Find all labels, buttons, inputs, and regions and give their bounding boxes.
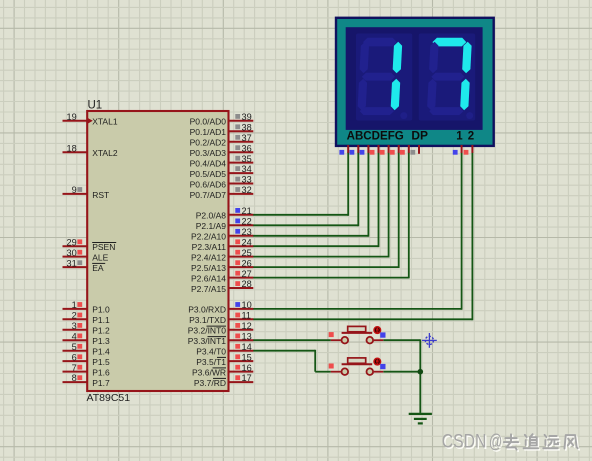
svg-text:P1.4: P1.4: [92, 347, 110, 357]
svg-text:14: 14: [242, 342, 252, 352]
svg-text:P1.2: P1.2: [92, 326, 110, 336]
svg-text:@: @: [489, 432, 502, 453]
svg-text:P2.0/A8: P2.0/A8: [196, 211, 227, 221]
svg-text:30: 30: [66, 248, 76, 258]
svg-text:ABCDEFG: ABCDEFG: [347, 130, 404, 142]
svg-text:XTAL1: XTAL1: [92, 117, 118, 127]
svg-text:27: 27: [242, 269, 252, 279]
svg-text:11: 11: [242, 311, 252, 321]
svg-text:37: 37: [242, 133, 252, 143]
svg-text:7: 7: [72, 363, 77, 373]
svg-text:18: 18: [66, 143, 76, 153]
svg-text:6: 6: [72, 352, 77, 362]
svg-text:4: 4: [72, 331, 77, 341]
svg-text:P3.2/INT0: P3.2/INT0: [188, 326, 227, 336]
svg-text:22: 22: [242, 217, 252, 227]
svg-text:26: 26: [242, 258, 252, 268]
svg-text:P0.1/AD1: P0.1/AD1: [190, 127, 227, 137]
svg-text:P3.1/TXD: P3.1/TXD: [189, 315, 226, 325]
svg-text:P1.7: P1.7: [92, 378, 110, 388]
svg-text:P0.2/AD2: P0.2/AD2: [190, 138, 227, 148]
svg-text:P1.0: P1.0: [92, 305, 110, 315]
svg-text:P2.7/A15: P2.7/A15: [191, 284, 226, 294]
svg-text:P2.5/A13: P2.5/A13: [191, 263, 226, 273]
svg-text:P0.4/AD4: P0.4/AD4: [190, 158, 227, 168]
svg-text:32: 32: [242, 185, 252, 195]
svg-text:36: 36: [242, 143, 252, 153]
svg-text:ALE: ALE: [92, 252, 108, 262]
svg-text:34: 34: [242, 164, 252, 174]
svg-text:9: 9: [72, 185, 77, 195]
svg-text:P1.5: P1.5: [92, 357, 110, 367]
svg-text:RST: RST: [92, 190, 109, 200]
svg-text:P3.0/RXD: P3.0/RXD: [188, 305, 226, 315]
svg-text:1: 1: [456, 130, 463, 142]
svg-text:5: 5: [72, 342, 77, 352]
svg-text:P3.4/T0: P3.4/T0: [196, 347, 226, 357]
svg-text:P0.5/AD5: P0.5/AD5: [190, 169, 227, 179]
svg-text:12: 12: [242, 321, 252, 331]
svg-text:35: 35: [242, 154, 252, 164]
svg-text:P3.5/T1: P3.5/T1: [196, 357, 226, 367]
svg-text:8: 8: [72, 373, 77, 383]
svg-text:13: 13: [242, 331, 252, 341]
svg-text:P1.1: P1.1: [92, 315, 110, 325]
svg-text:AT89C51: AT89C51: [87, 392, 131, 404]
svg-text:25: 25: [242, 248, 252, 258]
svg-text:19: 19: [66, 112, 76, 122]
svg-text:P3.6/WR: P3.6/WR: [192, 367, 226, 377]
svg-text:P2.3/A11: P2.3/A11: [192, 242, 227, 252]
svg-text:U1: U1: [88, 100, 103, 112]
svg-text:P0.6/AD6: P0.6/AD6: [190, 179, 227, 189]
svg-text:XTAL2: XTAL2: [92, 148, 118, 158]
svg-text:29: 29: [66, 237, 76, 247]
svg-text:2: 2: [468, 130, 474, 142]
svg-text:1: 1: [72, 300, 77, 310]
svg-text:P1.6: P1.6: [92, 367, 110, 377]
svg-text:33: 33: [242, 175, 252, 185]
svg-text:P0.0/AD0: P0.0/AD0: [190, 117, 227, 127]
svg-text:16: 16: [242, 363, 252, 373]
svg-text:21: 21: [242, 206, 252, 216]
svg-text:PSEN: PSEN: [92, 242, 115, 252]
svg-text:P2.1/A9: P2.1/A9: [196, 221, 227, 231]
svg-text:2: 2: [72, 311, 77, 321]
svg-text:P1.3: P1.3: [92, 336, 110, 346]
svg-text:24: 24: [242, 237, 252, 247]
svg-text:15: 15: [242, 352, 252, 362]
svg-text:39: 39: [242, 112, 252, 122]
svg-text:31: 31: [66, 258, 76, 268]
svg-text:28: 28: [242, 279, 252, 289]
svg-text:3: 3: [72, 321, 77, 331]
svg-text:CSDN: CSDN: [442, 432, 487, 453]
svg-text:P2.2/A10: P2.2/A10: [191, 232, 226, 242]
svg-text:10: 10: [242, 300, 252, 310]
svg-text:17: 17: [242, 373, 252, 383]
svg-text:DP: DP: [411, 130, 428, 142]
svg-text:38: 38: [242, 122, 252, 132]
svg-text:P2.4/A12: P2.4/A12: [191, 252, 226, 262]
svg-text:P3.3/INT1: P3.3/INT1: [188, 336, 227, 346]
svg-text:23: 23: [242, 227, 252, 237]
svg-text:EA: EA: [92, 263, 104, 273]
svg-text:P3.7/RD: P3.7/RD: [194, 378, 226, 388]
svg-text:P0.7/AD7: P0.7/AD7: [190, 190, 227, 200]
svg-text:P0.3/AD3: P0.3/AD3: [190, 148, 227, 158]
svg-text:P2.6/A14: P2.6/A14: [191, 273, 226, 283]
